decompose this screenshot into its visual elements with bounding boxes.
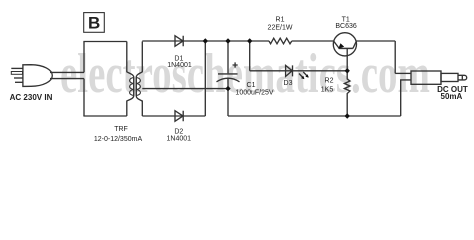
svg-text:1000uF/25V: 1000uF/25V [235,90,273,97]
transformer primary winding bumps [130,78,134,96]
junction dot LED branch [247,38,252,43]
wire transistor to output corner [356,40,395,42]
transistor base bar [339,47,353,49]
C1 plus sign [233,62,238,67]
junction dot C1 bottom [225,86,230,91]
svg-text:D2: D2 [174,129,183,136]
svg-text:1N4001: 1N4001 [167,136,192,143]
LED D3 arrowhead 2 [305,74,308,77]
capacitor C1 bottom lead [227,78,229,88]
svg-text:D3: D3 [284,80,293,87]
svg-text:B: B [88,14,100,33]
wire into DC plug top [395,72,411,74]
primary loop left edge upper [83,42,85,73]
transistor T1 circle [333,33,356,56]
svg-text:TRF: TRF [114,126,128,133]
svg-text:AC 230V IN: AC 230V IN [10,93,53,102]
transistor emitter arrow [338,43,344,48]
capacitor C1 top lead [227,41,229,73]
resistor R2 zigzag [344,71,350,116]
transistor base lead down [346,48,348,70]
wire D2 up to top rail [204,41,206,116]
junction dot C1 top [225,38,230,43]
transformer secondary conductor [136,42,142,117]
svg-text:1K5: 1K5 [321,86,334,93]
wire plug top [50,71,84,73]
transformer secondary stem [135,78,137,96]
wire LED rail [250,70,348,72]
capacitor C1 bottom curved plate [217,78,240,82]
AC plug body [23,65,52,87]
wire ground up to DC plug [401,80,411,116]
DC plug tip [458,75,467,80]
wire R1 to transistor [292,40,334,42]
diode D2 [175,111,183,122]
LED D3 [286,65,293,76]
DC plug body [411,71,441,84]
wire output vertical [394,41,396,73]
capacitor C1 top plate [218,73,238,75]
transistor collector diagonal [353,41,356,48]
resistor R1 zigzag [269,38,292,44]
transformer primary stem [133,78,135,96]
primary loop top edge [83,41,126,43]
wire D2 bottom rail [142,115,205,117]
primary loop left edge lower [83,79,85,116]
wire plug bottom [50,78,84,80]
svg-text:R1: R1 [276,17,285,24]
junction dot D2/top rail [203,38,208,43]
primary loop bottom edge [83,115,126,117]
transistor emitter diagonal [334,41,340,48]
svg-text:12-0-12/350mA: 12-0-12/350mA [94,136,143,143]
LED D3 arrowhead 1 [301,76,304,79]
AC plug prong 3 [14,77,23,79]
DC plug shaft [441,73,458,81]
LED D3 arrows [299,72,308,79]
AC plug prong 4 [15,81,23,83]
svg-text:22E/1W: 22E/1W [268,24,293,31]
svg-text:C1: C1 [247,82,256,89]
wire top rail left of R1 [142,40,269,42]
svg-text:BC636: BC636 [335,23,357,30]
wire LED branch down from top rail [249,41,251,71]
junction dot R2 ground [345,113,350,118]
junction dot base node [345,68,350,73]
B label box [84,13,105,33]
wire ground rail bottom [228,115,401,117]
transformer T primary conductor [127,42,134,117]
watermark [60,42,430,106]
wire ground step down [227,89,229,116]
svg-text:50mA: 50mA [441,92,463,101]
diode D1 [175,36,183,47]
wire secondary mid rail (center tap) [142,88,228,90]
svg-text:1N4001: 1N4001 [167,62,192,69]
AC plug prong 2 [11,72,22,75]
svg-text:R2: R2 [325,78,334,85]
transformer secondary winding bumps [136,78,140,96]
AC plug prong 1 [11,67,22,69]
